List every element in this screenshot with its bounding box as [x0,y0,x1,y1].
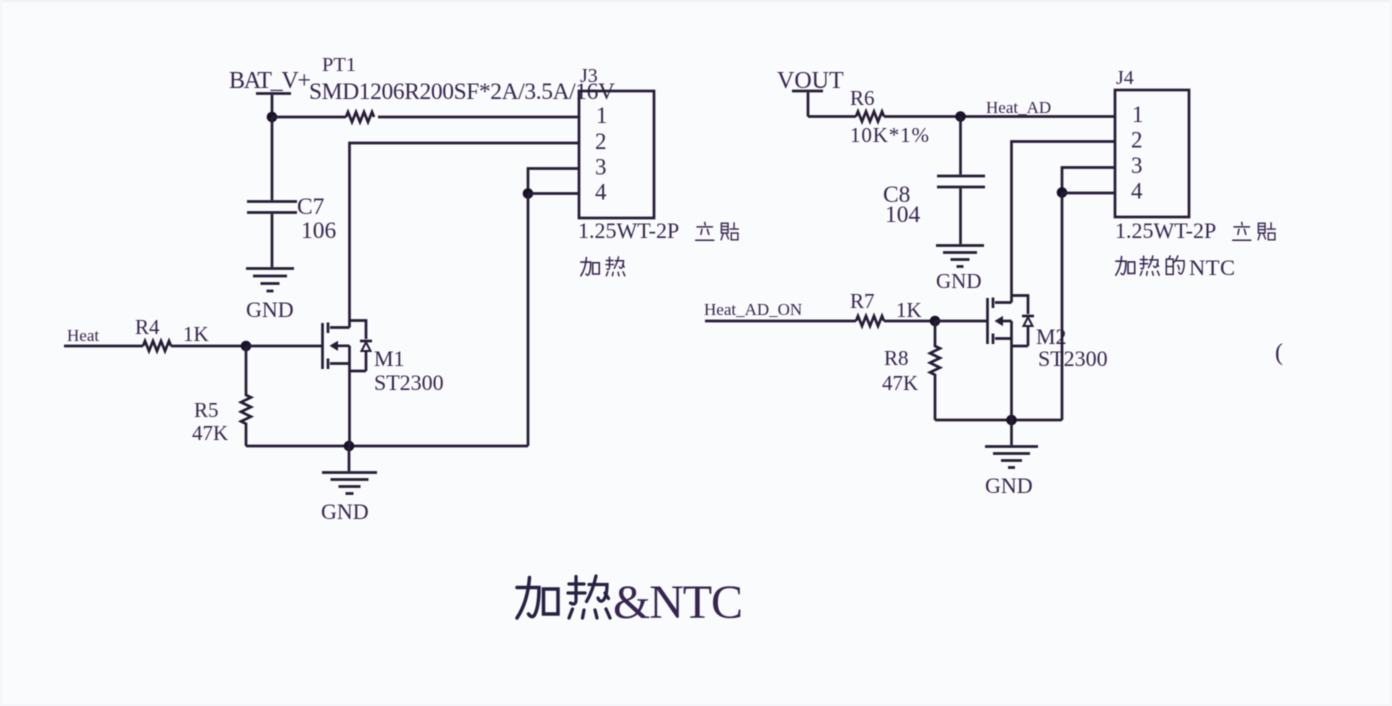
node source rail junction M1 [344,441,355,452]
power flag BAT_V+ [229,68,311,117]
connector J3 [578,65,738,276]
svg-text:(: ( [1275,340,1283,366]
svg-text:1K: 1K [183,322,209,346]
connector J4 [1115,67,1275,280]
svg-text:R6: R6 [850,86,875,110]
svg-text:3: 3 [595,155,607,180]
svg-text:1: 1 [596,103,608,128]
svg-text:ST2300: ST2300 [374,370,444,395]
node gate junction M1 [241,341,252,352]
svg-text:GND: GND [936,269,982,293]
wire source rail [246,445,528,448]
svg-text:SMD1206R200SF*2A/3.5A/16V: SMD1206R200SF*2A/3.5A/16V [309,79,615,105]
svg-text:1.25WT-2P: 1.25WT-2P [578,218,679,243]
svg-text:M1: M1 [374,346,405,371]
svg-text:&NTC: &NTC [613,576,743,629]
svg-text:Heat_AD_ON: Heat_AD_ON [704,300,802,319]
wire Heat_AD_ON input [705,320,856,323]
wire M1 drain to J3 pin 2 [350,143,580,328]
svg-text:ST2300: ST2300 [1038,346,1108,371]
wire pin junction to source rail [527,194,530,447]
ground (C8) [936,246,984,294]
svg-text:NTC: NTC [1189,255,1235,280]
node source rail junction M2 [1006,415,1017,426]
resistor R6 [850,86,929,147]
node J4 pin3/4 junction [1057,187,1068,198]
wire source rail M2 [935,419,1062,422]
power flag VOUT [777,68,844,117]
svg-text:2: 2 [1131,128,1143,153]
wire R4 to gate junction [171,345,246,348]
svg-text:R4: R4 [135,315,160,339]
transistor M2 [988,296,1108,421]
wire Heat input [64,345,143,348]
wire VOUT to R6 [808,115,856,118]
svg-text:106: 106 [301,218,337,244]
svg-text:C7: C7 [297,194,325,220]
svg-text:Heat_AD: Heat_AD [986,98,1051,117]
wire J3 pin 3 [528,169,579,194]
wire BAT_V to PT1 [272,116,346,119]
resistor PT1 [309,54,615,122]
resistor R5 [192,346,251,446]
svg-text:1.25WT-2P: 1.25WT-2P [1115,218,1216,243]
svg-text:R5: R5 [194,398,219,422]
svg-text:J4: J4 [1116,67,1134,89]
svg-text:Heat: Heat [67,326,99,345]
ground (C7) [246,269,294,323]
title 加热&NTC [517,576,743,629]
svg-text:J3: J3 [580,65,598,87]
svg-text:47K: 47K [192,421,228,445]
svg-text:R8: R8 [884,346,909,370]
wire J4 pin junction to source rail [1061,193,1064,421]
svg-text:47K: 47K [882,371,918,395]
svg-text:GND: GND [321,499,369,524]
svg-text:1K: 1K [896,298,922,322]
resistor R4 [135,315,209,351]
svg-text:3: 3 [1131,153,1143,178]
wire M2 drain to J4 pin 2 [1012,142,1116,303]
node J3 pin3/4 junction [523,188,534,199]
ground (M2 source) [985,420,1038,498]
wire J4 pin 4 [1062,192,1115,195]
node Heat_AD junction [955,111,966,122]
ground (M1 source) [321,446,377,524]
resistor R8 [882,321,940,420]
transistor M1 [323,321,444,447]
capacitor C8 [883,117,985,245]
wire J3 pin 4 [528,192,579,195]
resistor R7 [850,289,922,326]
node BAT_V junction [267,112,278,123]
svg-text:BAT_V+: BAT_V+ [229,68,311,94]
wire R6 to J4 pin 1 [884,115,1115,118]
svg-text:104: 104 [885,202,921,228]
svg-text:GND: GND [246,297,294,322]
wire J4 pin 3 [1062,168,1115,193]
svg-text:GND: GND [985,473,1033,498]
svg-text:1: 1 [1132,102,1144,127]
wire gate junction to M2 gate [935,320,987,323]
wire PT1 to J3 pin 1 [378,116,579,119]
svg-text:4: 4 [595,180,607,205]
svg-text:PT1: PT1 [322,54,356,76]
svg-text:2: 2 [595,129,607,154]
wire gate junction to M1 gate [246,345,322,348]
svg-text:10K*1%: 10K*1% [850,123,929,147]
wire R7 to gate junction [884,320,935,323]
svg-text:R7: R7 [850,289,875,313]
capacitor C7 [247,117,337,267]
svg-text:4: 4 [1131,179,1143,204]
node gate junction M2 [930,316,941,327]
